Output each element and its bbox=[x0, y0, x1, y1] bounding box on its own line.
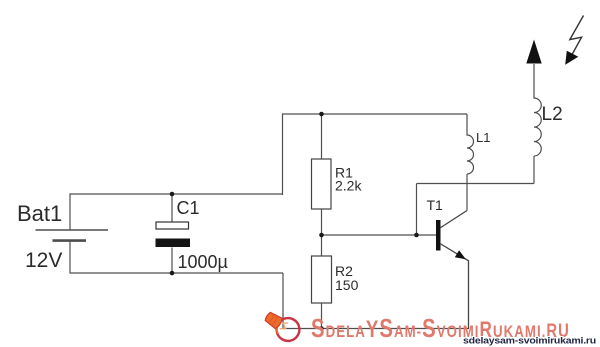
wire: L2 bottom lead bbox=[533, 156, 535, 184]
svg-text:sdelaysam-svoimirukami.ru: sdelaysam-svoimirukami.ru bbox=[463, 336, 596, 346]
inductor L2 bbox=[534, 64, 541, 156]
capacitor C1 bbox=[156, 194, 191, 273]
wire: battery + to top-left rail bbox=[70, 194, 283, 230]
wire: feedback wire to L2 bottom bbox=[417, 183, 535, 185]
wire: battery - to bottom rail bbox=[70, 241, 283, 273]
node: R1/R2 base junction bbox=[319, 233, 324, 238]
transistor T1 bbox=[436, 211, 469, 329]
svg-text:1000µ: 1000µ bbox=[178, 252, 228, 272]
node: R1 top junction bbox=[319, 112, 324, 117]
wire: base wire bbox=[322, 234, 437, 236]
wire: ground rail bbox=[283, 328, 469, 330]
node: base/L2 junction bbox=[414, 233, 419, 238]
svg-text:150: 150 bbox=[335, 277, 359, 293]
node: R2 ground junction bbox=[319, 326, 323, 330]
svg-text:Bat1: Bat1 bbox=[17, 201, 62, 226]
svg-text:L2: L2 bbox=[542, 104, 563, 125]
antenna arrow bbox=[526, 40, 541, 64]
svg-text:T1: T1 bbox=[427, 197, 444, 213]
svg-text:L1: L1 bbox=[476, 130, 490, 145]
battery Bat1 bbox=[36, 230, 109, 241]
svg-text:2.2k: 2.2k bbox=[335, 178, 362, 194]
node: C1 top junction bbox=[170, 192, 175, 197]
lightning bolt bbox=[565, 16, 583, 65]
resistor R2 bbox=[312, 235, 332, 329]
wire: dropper to ground rail bbox=[282, 273, 284, 329]
wire: riser from base junction to feedback wire bbox=[416, 184, 418, 236]
node: C1 bottom junction bbox=[170, 271, 175, 276]
svg-text:12V: 12V bbox=[25, 249, 62, 272]
inductor L1 bbox=[467, 114, 474, 174]
wire: top rail to L1 bbox=[282, 113, 467, 115]
wire: riser up to top rail bbox=[282, 114, 284, 195]
watermark text sdelaysam-svoimirukami.ru bbox=[311, 314, 570, 343]
wire: L1 to collector bbox=[466, 174, 468, 211]
svg-text:C1: C1 bbox=[177, 198, 200, 218]
watermark light bulb icon bbox=[261, 306, 304, 345]
resistor R1 bbox=[312, 114, 332, 235]
